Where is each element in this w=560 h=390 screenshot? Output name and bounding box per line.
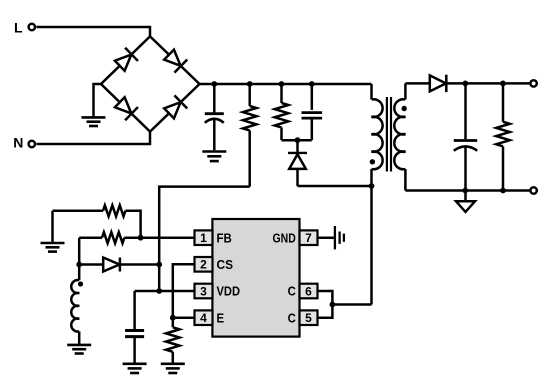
wire pin 5 to collector node [318,305,333,318]
wire output return rail [405,189,529,192]
wire R5 to aux node [78,238,81,265]
svg-text:CS: CS [217,257,234,272]
transformer T1 primary winding [372,84,383,305]
pin 2 box [195,257,213,272]
svg-text:7: 7 [305,231,312,245]
wire pin 7 to signal ground [318,236,334,239]
pin 1 box [195,230,213,245]
node junction outrail-C3 [462,81,468,87]
wire R4 to ground [51,211,54,243]
diode D6 output rectifier [430,75,447,92]
svg-text:2: 2 [200,258,207,272]
node junction return-C3 [462,188,468,194]
capacitor C1 bulk input [205,84,224,150]
node L terminal circle [29,24,35,30]
ground C4 [123,364,147,373]
pin 6 box [300,284,318,299]
node junction aux winding top [76,262,82,268]
resistor R5 feedback lower [79,232,140,243]
svg-text:FB: FB [217,230,232,245]
pin 7 box [300,230,318,245]
capacitor C4 VDD bypass [125,331,144,364]
wire secondary top to output diode [405,82,429,85]
resistor R1 startup [243,84,257,187]
wire bridge diamond edges [101,36,200,131]
svg-text:L: L [14,20,23,36]
wire cap branch down [133,291,136,329]
node primary polarity dot [370,159,375,164]
svg-text:5: 5 [305,311,312,325]
ground R6 [161,364,185,373]
inductor L1 aux winding [71,265,79,345]
svg-text:6: 6 [305,284,312,298]
wire FB node to pin 1 [141,236,195,239]
node junction return-R3 [500,188,506,194]
wire pin 6 to collector node [318,291,333,305]
wire pin 4 E to sense node [173,316,195,319]
wire VDD node to pin 3 and cap branch [135,290,195,293]
resistor R2 snubber [275,84,289,140]
svg-text:3: 3 [200,284,207,298]
pin 3 box [195,284,213,299]
node junction emitter sense [170,315,176,321]
wire N input to bridge bottom [37,132,151,144]
ground aux winding [67,345,91,354]
svg-text:C: C [288,310,297,325]
svg-text:VDD: VDD [217,284,241,299]
transformer T1 secondary winding [394,83,405,190]
op-amp U1 controller IC body [212,219,299,337]
wire snubber R2 C2 junction [282,139,312,142]
node aux winding polarity dot [78,281,83,286]
wire output positive rail [446,82,529,85]
capacitor C3 output [454,83,477,190]
ground C1 [202,152,226,162]
node junction collector [330,302,336,308]
diode D4 bridge lower-right [163,95,188,120]
node junction bus-C2 [309,81,315,87]
resistor R6 current sense [166,318,180,364]
resistor R4 feedback upper [53,205,141,237]
svg-text:C: C [288,284,297,299]
diode D7 aux rectifier [79,258,159,272]
diode D5 snubber clamp [288,140,307,186]
node junction VDD rail pin3 [156,288,162,294]
wire L input to bridge top [37,27,151,36]
node junction FB [138,235,144,241]
resistor R3 load [496,83,510,190]
ground feedback divider [41,243,65,252]
wire pin 2 CS to sense node [173,264,195,317]
diode D2 bridge lower-left [113,96,138,121]
pin 5 box [300,310,318,325]
wire bridge left corner to ground [94,84,102,117]
transformer T1 core [387,97,391,172]
node output positive terminal [530,80,536,86]
node junction outrail-R3 [500,81,506,87]
node secondary polarity dot [402,106,407,111]
svg-text:1: 1 [200,231,207,245]
wire collector node to primary bottom [332,303,371,306]
ground output chassis [456,191,475,212]
svg-text:E: E [217,310,225,325]
node output negative terminal [530,187,536,193]
node N terminal circle [29,141,35,147]
ground bridge negative [82,117,106,126]
node junction bus-R2 [279,81,285,87]
node junction VDD rail diode [156,262,162,268]
node junction bus-C1 [211,81,217,87]
wire snubber return to primary bottom [298,185,372,188]
node junction snubber [295,137,301,143]
capacitor C2 snubber [302,84,323,140]
pin 4 box [195,310,213,325]
svg-text:N: N [13,134,23,150]
node junction bus-R1 [247,81,253,87]
diode D1 bridge upper-left [113,48,138,73]
svg-text:GND: GND [273,230,296,245]
node junction primary-snubber [369,183,375,189]
svg-text:4: 4 [200,311,207,325]
wire DC bus from bridge to transformer primary [200,83,372,86]
ground signal rotated [335,226,344,249]
diode D3 bridge upper-right [163,48,188,73]
wire R1 bottom to VDD rail [159,187,250,291]
